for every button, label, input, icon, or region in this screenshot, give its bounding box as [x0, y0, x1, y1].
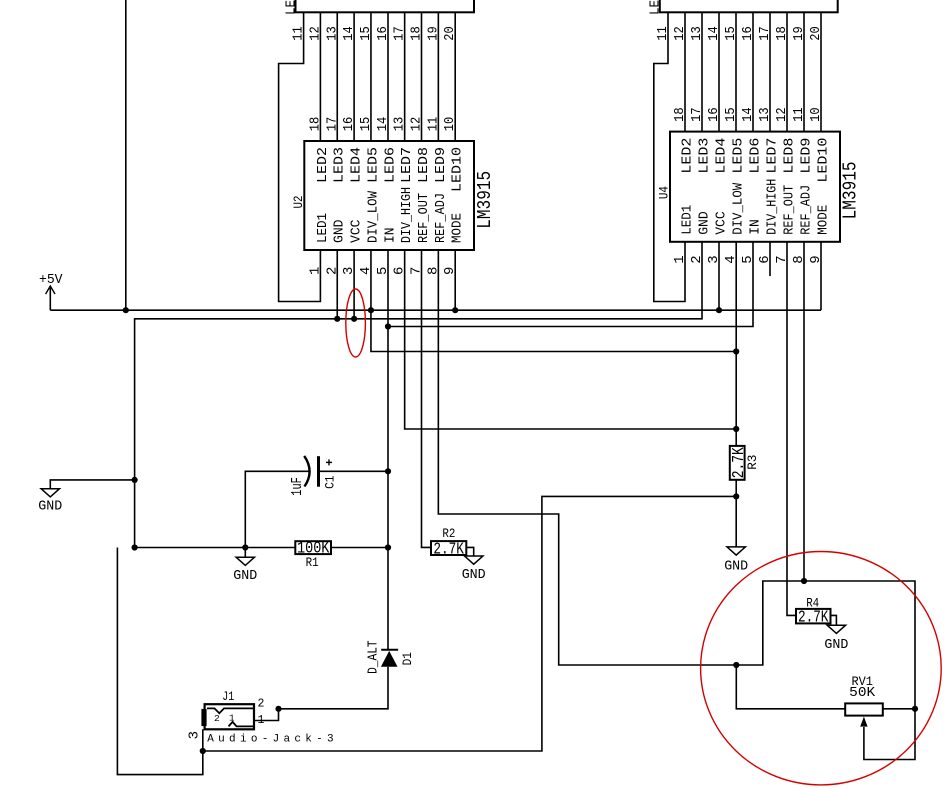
J1 sleeve bar: [201, 709, 206, 726]
svg-text:MODE: MODE: [450, 213, 466, 243]
wire D1 anode down to jack pin2 level: [279, 667, 389, 709]
svg-text:LED2: LED2: [315, 147, 331, 183]
junction +5V / top wire: [123, 307, 129, 313]
svg-text:13: 13: [392, 117, 408, 132]
svg-text:12: 12: [774, 107, 790, 122]
ground: [727, 547, 745, 555]
junction U2 pin3 VCC on rail2: [351, 316, 357, 322]
wire RV1 right lead: [883, 708, 915, 710]
svg-text:GND: GND: [332, 220, 348, 244]
resistor R2 2.7K: [431, 541, 466, 555]
wires bargraph BG2 pins 12-20 to U4 pins 18-10: [684, 12, 686, 131]
wire U4 pin7 REF_OUT down to R4: [787, 242, 796, 616]
svg-text:LED10: LED10: [815, 138, 831, 183]
svg-text:LED3: LED3: [696, 138, 712, 174]
svg-text:LM3915: LM3915: [840, 161, 862, 219]
svg-text:GND: GND: [724, 559, 748, 575]
svg-text:15: 15: [723, 107, 739, 122]
svg-text:D_ALT: D_ALT: [365, 640, 381, 674]
junction R3 top: [733, 426, 739, 432]
junction R1 / D1 / C1 node: [385, 544, 391, 550]
svg-text:13: 13: [757, 107, 773, 122]
capacitor C1 1uF (polarized): [304, 456, 309, 487]
svg-text:J1: J1: [222, 689, 234, 704]
wire U2 pin8 REF_ADJ down, over and down to RV1 net: [438, 250, 736, 665]
wire signal rail3 (node IN): [388, 242, 753, 327]
svg-text:LED2: LED2: [648, 0, 664, 15]
resistor R1 100K: [295, 541, 331, 554]
svg-text:10: 10: [442, 117, 458, 132]
op-amp-style IC box U2 LM3915: [304, 141, 474, 250]
svg-text:REF_OUT: REF_OUT: [781, 185, 797, 235]
IC box U4 LM3915: [670, 132, 840, 242]
wire U2 pin2 GND stub: [336, 250, 338, 319]
resistor R4 2.7K: [796, 609, 831, 624]
J1 tip contact (pin 2): [207, 708, 254, 713]
svg-text:GND: GND: [824, 637, 848, 653]
wire U2 pin4 DIV_LOW down and over to U4 pin4: [371, 250, 736, 352]
wire bargraph BG2 pin11 jog to U4 pin1 (LED1): [654, 12, 685, 301]
junction U2 pin5 IN on rail3: [385, 323, 391, 329]
svg-text:12: 12: [409, 117, 425, 132]
junction C1 branch / R1 rail: [242, 544, 248, 550]
wire U4 pin8 REF_ADJ down: [803, 242, 805, 581]
svg-text:16: 16: [706, 107, 722, 122]
wire R3 bottom to ground: [735, 480, 737, 547]
svg-text:R4: R4: [806, 595, 819, 610]
junction C1 / IN line: [385, 468, 391, 474]
svg-text:LED5: LED5: [730, 138, 746, 174]
wire from top to +5V rail: [125, 0, 127, 310]
LED bargraph display BG1 (top, partially off-canvas): [296, 0, 475, 12]
wire U4 pin4 DIV_LOW down to R3: [735, 242, 737, 446]
svg-text:LED7: LED7: [764, 138, 780, 174]
ground: [827, 625, 845, 633]
LED bargraph display BG2 (top, partially off-canvas): [660, 0, 838, 12]
junction U2 pin2 GND on rail2: [334, 316, 340, 322]
ground: [236, 557, 254, 565]
junction RV1 right / wiper loop: [912, 706, 918, 712]
svg-text:LED9: LED9: [433, 147, 449, 183]
svg-text:18: 18: [672, 107, 688, 122]
svg-text:IN: IN: [747, 219, 763, 235]
svg-text:DIV_LOW: DIV_LOW: [730, 182, 746, 235]
junction U4 pin8 REF_ADJ: [801, 578, 807, 584]
svg-text:C1: C1: [323, 475, 338, 489]
svg-text:MODE: MODE: [815, 205, 831, 235]
wire U2 pin6 DIV_HIGH down and over to R3 top: [405, 250, 737, 429]
wire ground rail to R1: [135, 547, 296, 549]
+5V power symbol: [49, 286, 51, 310]
svg-text:LED6: LED6: [382, 147, 398, 183]
svg-text:+5V: +5V: [39, 272, 63, 288]
svg-text:LED4: LED4: [713, 138, 729, 174]
wire U2 pin9 MODE stub: [454, 250, 456, 310]
svg-text:REF_ADJ: REF_ADJ: [798, 185, 814, 235]
wire +5V rail up to U4 pin9 MODE: [820, 242, 822, 310]
junction J1 pin1+pin2: [275, 706, 281, 712]
svg-text:16: 16: [341, 117, 357, 132]
svg-text:REF_OUT: REF_OUT: [416, 193, 432, 243]
svg-text:DIV_HIGH: DIV_HIGH: [399, 187, 415, 243]
svg-text:2.7K: 2.7K: [433, 541, 464, 560]
svg-text:LED2: LED2: [679, 138, 695, 174]
svg-text:GND: GND: [696, 211, 712, 235]
wire U2 pin7 REF_OUT down to R2: [422, 250, 432, 547]
junction left vertical / R1 rail: [132, 544, 138, 550]
svg-text:15: 15: [358, 117, 374, 132]
svg-text:3: 3: [187, 731, 203, 739]
svg-text:R2: R2: [442, 526, 455, 541]
svg-text:2.7K: 2.7K: [798, 609, 829, 628]
svg-text:GND: GND: [462, 567, 486, 583]
junction U2 pin9 MODE on +5V rail: [452, 307, 458, 313]
audio jack J1 body: [205, 704, 254, 729]
svg-text:LED3: LED3: [332, 147, 348, 183]
svg-text:1: 1: [307, 267, 323, 275]
svg-text:LED6: LED6: [747, 138, 763, 174]
wire U2 pin3 VCC stub (circled error): [353, 250, 355, 319]
svg-text:2: 2: [257, 698, 264, 711]
svg-text:R1: R1: [306, 555, 319, 570]
svg-text:DIV_HIGH: DIV_HIGH: [764, 179, 780, 235]
svg-text:1: 1: [229, 713, 235, 724]
svg-text:1uF: 1uF: [289, 477, 306, 496]
svg-text:LED4: LED4: [349, 147, 365, 183]
svg-text:LED1: LED1: [315, 213, 331, 243]
svg-text:1: 1: [672, 255, 688, 263]
svg-text:R3: R3: [745, 455, 760, 470]
svg-text:GND: GND: [38, 499, 62, 515]
svg-text:GND: GND: [233, 568, 257, 584]
wire RV1 left lead: [736, 665, 845, 709]
svg-text:50K: 50K: [849, 686, 876, 701]
svg-text:U2: U2: [291, 196, 306, 209]
wire U4 pin6 DIV_HIGH stub (unconnected): [769, 242, 771, 276]
junction GND branch: [132, 477, 138, 483]
svg-text:LED7: LED7: [399, 147, 415, 183]
wire bargraph BG1 pin11 jog to U2 pin1 (LED1): [279, 12, 321, 301]
svg-text:U4: U4: [657, 186, 672, 199]
junction on U4 pin4 line: [733, 348, 739, 354]
wire R1 right to signal node: [331, 547, 388, 549]
red annotation circle around RV1/R4 area: [701, 552, 942, 785]
wire J1 pin3 sleeve down: [202, 729, 204, 751]
junction RV1 left branch: [733, 662, 739, 668]
ground symbol below R1 rail: [244, 548, 246, 558]
potentiometer RV1 50K body: [845, 703, 883, 715]
red annotation ellipse around U2 pin3 junction: [346, 289, 366, 357]
ground: [465, 556, 483, 564]
wires bargraph BG1 pins 12-20 to U2 pins 18-10: [319, 12, 321, 141]
svg-text:11: 11: [791, 107, 807, 122]
wire sleeve net across bottom to R3 bottom: [203, 496, 736, 751]
svg-text:17: 17: [689, 107, 705, 122]
wire R4 right to ground: [831, 615, 837, 625]
svg-text:D1: D1: [400, 652, 415, 666]
svg-text:2: 2: [214, 713, 220, 724]
svg-text:LED5: LED5: [365, 147, 381, 183]
svg-text:VCC: VCC: [349, 220, 365, 244]
wire U4 pin3 VCC stub: [718, 242, 720, 310]
svg-text:18: 18: [307, 117, 323, 132]
svg-text:LED1: LED1: [284, 0, 300, 15]
svg-text:VCC: VCC: [713, 211, 729, 235]
junction U2 pin4 DIV_LOW on +5V rail: [368, 307, 374, 313]
plus sign C1: [326, 461, 332, 463]
diode D1 (cathode bar + filled triangle pointing up): [381, 649, 398, 651]
wire J1 pin1 up to junction: [254, 709, 279, 721]
svg-text:17: 17: [324, 117, 340, 132]
svg-text:IN: IN: [382, 228, 398, 244]
svg-text:14: 14: [375, 117, 391, 132]
wire C1 left lead to ground rail corner: [245, 471, 309, 547]
svg-text:LED9: LED9: [798, 138, 814, 174]
wire C1 right lead: [319, 470, 388, 472]
svg-text:REF_ADJ: REF_ADJ: [433, 193, 449, 243]
junction R3 bottom: [733, 493, 739, 499]
ground: [41, 489, 59, 497]
svg-text:14: 14: [740, 107, 756, 122]
svg-text:DIV_LOW: DIV_LOW: [365, 190, 381, 243]
wire lower-left loop (ground return): [117, 548, 202, 775]
junction U4 pin3 VCC on +5V rail: [716, 307, 722, 313]
J1 ring contact (pin 1): [229, 722, 255, 727]
wire U2 pin5 IN vertical down to D1: [387, 250, 389, 650]
RV1 wiper arrow: [860, 717, 867, 727]
ground symbol left: [50, 480, 134, 488]
junction J1 pin3 node: [200, 748, 206, 754]
svg-text:LED8: LED8: [781, 138, 797, 174]
svg-text:LM3915: LM3915: [474, 171, 496, 229]
wire junction up and across to U4 pin8 REF_ADJ and down right side: [736, 581, 915, 760]
svg-text:LED10: LED10: [450, 147, 466, 192]
svg-text:LED1: LED1: [679, 205, 695, 235]
wire R2 right to ground: [466, 547, 473, 556]
svg-text:LED8: LED8: [416, 147, 432, 183]
svg-text:10: 10: [808, 107, 824, 122]
svg-text:11: 11: [425, 117, 441, 132]
svg-text:1: 1: [257, 714, 264, 727]
wire GND rail (rail2): [135, 242, 702, 548]
wire +5V rail (node VCC): [50, 309, 821, 311]
resistor R3 2.7K: [730, 446, 745, 480]
